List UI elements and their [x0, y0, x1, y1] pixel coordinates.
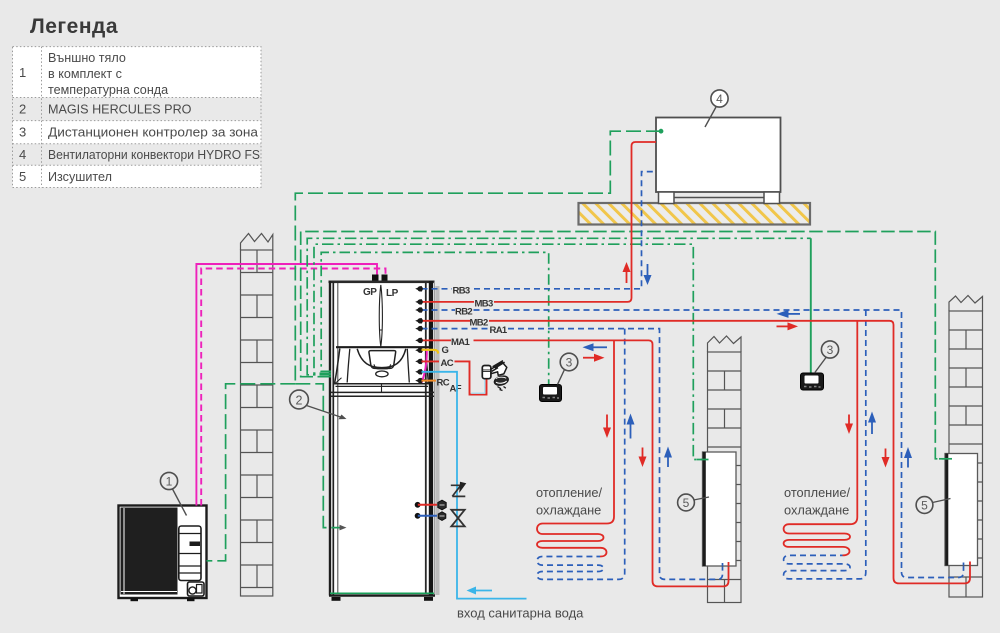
boiler section separator	[336, 346, 429, 348]
wire magenta solid (outdoor link)	[196, 264, 377, 506]
svg-text:Легенда: Легенда	[30, 15, 118, 38]
green loop D to controller 1	[321, 252, 549, 384]
svg-text:5: 5	[683, 496, 690, 510]
svg-text:G: G	[442, 345, 449, 356]
dehumidifier 2	[945, 454, 978, 566]
label circle 2	[290, 390, 309, 409]
indoor unit top edge	[329, 281, 435, 284]
svg-text:охлаждане: охлаждане	[536, 503, 601, 518]
arrow blue up (zone1 dehum)	[667, 457, 669, 468]
label circle 3b	[821, 341, 838, 358]
lower cabinet frame	[331, 391, 434, 393]
blue service stub with nut	[415, 513, 421, 519]
wire MB3 (red)	[422, 142, 971, 586]
green loop B to controller 2	[307, 238, 811, 374]
faucet icon	[482, 361, 509, 391]
legend numbers	[19, 65, 26, 184]
red service stub with nut	[415, 502, 421, 508]
svg-text:4: 4	[716, 92, 723, 106]
wire MB2 branch to floor coil 2 (supply)	[784, 321, 858, 556]
arrow red down (zone2 floor)	[848, 415, 850, 425]
center blade	[379, 285, 382, 347]
outdoor unit pump bottom	[188, 582, 205, 596]
dehumidifier 1	[703, 452, 737, 566]
svg-text:MA1: MA1	[451, 337, 470, 348]
svg-text:2: 2	[296, 393, 303, 407]
outdoor unit fan grille (black)	[121, 508, 178, 595]
svg-text:охлаждане: охлаждане	[784, 503, 849, 518]
label circle 3a	[560, 353, 578, 371]
platform	[579, 203, 811, 225]
outdoor unit feet	[131, 598, 139, 601]
magenta cable on panel	[422, 349, 427, 383]
legend table row 1 bg	[13, 47, 262, 98]
wire labels	[437, 285, 508, 394]
svg-text:Вентилаторни конвектори HYDRO: Вентилаторни конвектори HYDRO FS	[48, 148, 260, 162]
wire RA1 branch to floor coil 1 (return)	[537, 329, 625, 580]
arrow blue left (zone2)	[788, 313, 800, 315]
indoor unit bottom rail	[330, 592, 434, 594]
wire RB3 (blue dashed)	[422, 172, 964, 580]
brick wall middle	[708, 336, 742, 603]
arrow blue up (zone1 floor)	[630, 424, 632, 439]
wire AC (red) to faucet	[422, 361, 487, 394]
wire RB2 (blue dashed)	[422, 310, 964, 578]
arrow blue down (fan coil)	[647, 264, 649, 277]
svg-text:1: 1	[166, 475, 173, 489]
legend row texts	[48, 51, 260, 184]
connection dots on unit	[415, 286, 423, 384]
indoor unit top caps	[372, 275, 379, 282]
legend table row 3 bg	[13, 121, 262, 144]
svg-text:температурна сонда: температурна сонда	[48, 83, 168, 97]
label circle 4	[711, 90, 728, 107]
svg-text:GP: GP	[363, 287, 377, 298]
check valve	[451, 485, 466, 497]
svg-text:Изсушител: Изсушител	[48, 170, 112, 184]
wire MA1 (red)	[422, 340, 729, 586]
indoor unit 2 body	[331, 281, 434, 596]
svg-text:MAGIS HERCULES PRO: MAGIS HERCULES PRO	[48, 103, 192, 117]
svg-text:отопление/: отопление/	[536, 485, 603, 500]
svg-text:3: 3	[19, 125, 26, 140]
svg-text:AF: AF	[450, 383, 462, 394]
svg-text:RA1: RA1	[490, 325, 508, 336]
svg-text:MB2: MB2	[470, 317, 488, 328]
svg-text:отопление/: отопление/	[784, 485, 851, 500]
arrow red right (zone2)	[777, 325, 789, 327]
svg-text:LP: LP	[386, 288, 399, 299]
svg-text:RC: RC	[437, 377, 450, 388]
svg-text:в комплект с: в комплект с	[48, 67, 122, 81]
indoor unit feet	[332, 597, 341, 601]
wire RB2 branch to floor coil 2 (return)	[784, 310, 866, 579]
wire MA1 branch to floor coil 1 (supply)	[537, 340, 614, 556]
svg-text:RB3: RB3	[453, 285, 470, 296]
zone controller 2	[801, 373, 824, 390]
wire magenta dashed (outdoor link)	[201, 269, 385, 506]
arrow blue up (zone2 dehum)	[907, 457, 909, 468]
green wire to fan coil	[295, 131, 661, 384]
arrow red down (zone1 dehum)	[642, 448, 644, 458]
water inlet arrow (cyan)	[475, 590, 493, 592]
svg-text:5: 5	[19, 169, 26, 184]
green loop C to dehumidifier 1	[314, 244, 709, 459]
arrow red down (zone1 floor)	[606, 415, 608, 429]
flow arrows	[583, 262, 913, 468]
legend table row 5 bg	[13, 165, 262, 187]
svg-text:4: 4	[19, 147, 26, 162]
svg-text:MB3: MB3	[475, 298, 493, 309]
brick wall right	[949, 296, 983, 598]
svg-text:5: 5	[921, 499, 928, 513]
wire MB2 (red)	[422, 321, 971, 584]
fan coil unit 4	[656, 118, 781, 193]
wire AF (orange)	[422, 380, 437, 382]
arrow blue up (zone2 floor)	[871, 422, 873, 435]
arrow blue left (zone1)	[593, 346, 607, 348]
wire RC (cyan water line)	[422, 372, 527, 599]
arrow red down (zone2 dehum)	[885, 449, 887, 459]
outdoor unit side panel	[179, 526, 201, 581]
wire G (yellow)	[422, 350, 439, 354]
arrow red right (zone1)	[583, 357, 595, 359]
indoor unit left wall	[329, 281, 331, 596]
fan coil feet	[659, 192, 780, 204]
green wire branch to outdoor unit	[207, 384, 296, 561]
label circle 5b	[916, 497, 933, 514]
brick wall left	[241, 234, 273, 597]
arrow red up (fan coil)	[626, 271, 628, 284]
svg-text:вход санитарна вода: вход санитарна вода	[457, 606, 584, 621]
svg-text:Външно тяло: Външно тяло	[48, 51, 126, 65]
hourglass valve	[451, 510, 464, 527]
green wire branch into indoor unit	[295, 384, 342, 528]
boiler front panel	[335, 349, 429, 387]
wire RA1 (blue dashed)	[422, 329, 723, 580]
label circle 5a	[678, 494, 695, 511]
svg-text:2: 2	[19, 102, 26, 117]
outdoor unit 1	[119, 506, 207, 599]
svg-text:RB2: RB2	[455, 307, 472, 318]
svg-text:Дистанционен контролер за зона: Дистанционен контролер за зона	[48, 126, 258, 140]
legend table dotted borders	[13, 47, 262, 188]
indoor unit right wall	[425, 283, 427, 593]
zone controller 1	[540, 385, 562, 402]
label circle 1	[160, 472, 177, 489]
svg-text:AC: AC	[441, 358, 454, 369]
svg-text:3: 3	[566, 356, 573, 370]
svg-text:1: 1	[19, 65, 26, 80]
svg-text:3: 3	[827, 343, 834, 357]
green loop A to dehumidifier 2	[301, 232, 952, 459]
